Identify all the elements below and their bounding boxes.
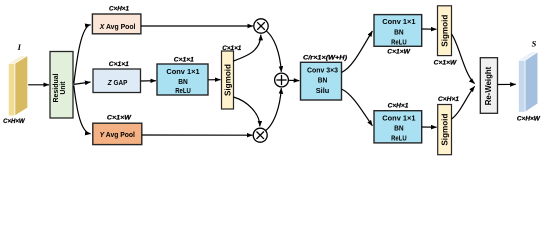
label C×H×W (input) [3, 118, 26, 125]
block X Avg Pool [92, 14, 140, 34]
svg-text:C/r×1×(W+H): C/r×1×(W+H) [303, 55, 347, 62]
svg-text:C×1×W: C×1×W [107, 114, 132, 121]
label S [532, 38, 537, 48]
svg-text:X Avg Pool: X Avg Pool [99, 22, 136, 31]
svg-text:Re-Weight: Re-Weight [484, 66, 493, 105]
label C×1×1 (above Z GAP) [109, 61, 130, 68]
block Y Avg Pool [93, 123, 142, 144]
label C/r×1×(W+H) (above Conv 3×3) [303, 55, 347, 62]
wire top-right Sigmoid to Re-Weight (curved) [452, 34, 475, 84]
wire Conv 1×1 to Sigmoid (middle) [208, 79, 220, 81]
svg-text:Unit: Unit [58, 81, 67, 94]
svg-text:C×1×1: C×1×1 [174, 57, 195, 64]
block Sigmoid (bottom right) [438, 105, 452, 155]
wire Sigmoid to multiply bottom (curved) [234, 97, 260, 126]
block Z GAP [93, 69, 141, 93]
multiply node bottom [253, 128, 267, 142]
label C×H×W (output) [517, 116, 541, 123]
label C×1×1 (above middle Sigmoid) [222, 45, 242, 52]
svg-text:Sigmoid: Sigmoid [223, 64, 232, 96]
svg-text:S: S [532, 38, 537, 48]
svg-text:ReLU: ReLU [391, 134, 407, 143]
wire Z GAP to Conv 1×1 [141, 80, 156, 82]
svg-text:I: I [17, 42, 22, 52]
block Conv 1×1 BN ReLU (middle) [157, 64, 208, 95]
svg-text:ReLU: ReLU [175, 86, 191, 95]
svg-text:C×H×1: C×H×1 [438, 96, 460, 103]
svg-text:C×1×W: C×1×W [434, 60, 458, 67]
svg-text:C×H×1: C×H×1 [109, 5, 130, 12]
label C×H×1 (above X Avg Pool) [109, 5, 130, 12]
wire top-right Conv to Sigmoid [422, 28, 437, 30]
svg-text:BN: BN [318, 76, 328, 85]
svg-text:C×1×W: C×1×W [387, 48, 411, 55]
svg-text:Conv 1×1: Conv 1×1 [166, 67, 199, 76]
wire X Avg Pool to multiply (top) [141, 25, 253, 27]
block Sigmoid (middle) [222, 51, 234, 109]
svg-text:C×H×1: C×H×1 [388, 102, 409, 109]
svg-text:C×1×1: C×1×1 [109, 61, 130, 68]
svg-text:Sigmoid: Sigmoid [440, 15, 449, 47]
wire add to Conv 3×3 [289, 79, 300, 81]
block Re-Weight [480, 58, 497, 114]
block Residual Unit [50, 52, 73, 119]
multiply node top [254, 19, 268, 33]
wire Re-Weight to output [498, 83, 516, 85]
wire multiply bottom to add (curved) [266, 88, 282, 130]
wire bottom-right Sigmoid to Re-Weight (curved) [452, 86, 475, 119]
wire Conv 3×3 to bottom-right Conv (curved) [342, 89, 373, 126]
label C×1×W (below top-right Sigmoid) [434, 60, 458, 67]
block Conv 1×1 BN ReLU (bottom right) [374, 111, 422, 143]
input tensor I (3D slab) [8, 55, 27, 115]
svg-text:BN: BN [394, 124, 404, 133]
wire multiply top to add (curved) [266, 31, 281, 72]
output tensor S (3D slab) [519, 52, 538, 112]
block Conv 3×3 BN Silu [301, 62, 342, 100]
svg-text:Z GAP: Z GAP [107, 78, 128, 87]
wire input to Residual Unit [28, 84, 49, 86]
label C×H×1 (above bottom-right Sigmoid) [438, 96, 460, 103]
wire Conv 3×3 to top-right Conv (curved) [342, 31, 373, 73]
svg-text:Conv 1×1: Conv 1×1 [382, 17, 415, 26]
svg-text:ReLU: ReLU [391, 38, 407, 47]
wire Residual Unit to X Avg Pool (curved) [74, 25, 91, 84]
wire Residual Unit to Y Avg Pool (curved) [74, 85, 91, 133]
label C×1×1 (above middle Conv) [174, 57, 195, 64]
wire Sigmoid to multiply top (curved) [234, 35, 261, 61]
label C×1×W (below top-right Conv) [387, 48, 411, 55]
svg-text:C×H×W: C×H×W [517, 116, 541, 123]
svg-text:Sigmoid: Sigmoid [440, 113, 449, 145]
svg-text:Conv 1×1: Conv 1×1 [382, 114, 415, 123]
label I [17, 42, 22, 52]
wire Residual Unit to Z GAP [74, 82, 91, 84]
svg-text:Y Avg Pool: Y Avg Pool [100, 130, 135, 139]
svg-text:BN: BN [394, 27, 404, 36]
wire Y Avg Pool to multiply (bottom) [142, 134, 252, 136]
svg-text:Conv 3×3: Conv 3×3 [307, 65, 338, 74]
block Sigmoid (top right) [438, 6, 452, 56]
label C×H×1 (above bottom-right Conv) [388, 102, 409, 109]
svg-text:C×H×W: C×H×W [3, 118, 26, 125]
wire bottom-right Conv to Sigmoid [422, 126, 437, 128]
block Conv 1×1 BN ReLU (top right) [374, 15, 422, 47]
add node [275, 73, 289, 87]
svg-text:Silu: Silu [316, 86, 330, 95]
label C×1×W (above Y Avg Pool) [107, 114, 132, 121]
svg-text:BN: BN [178, 77, 188, 86]
